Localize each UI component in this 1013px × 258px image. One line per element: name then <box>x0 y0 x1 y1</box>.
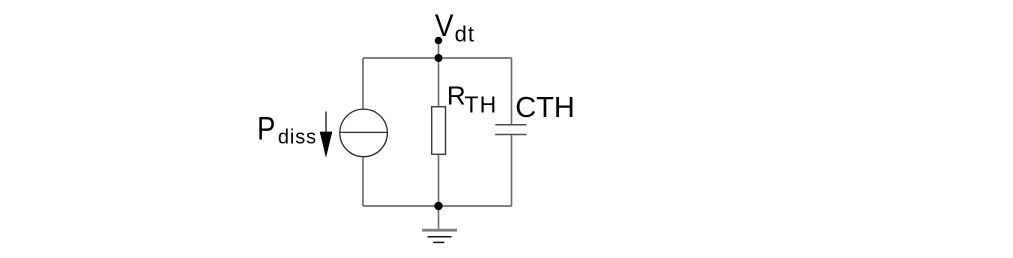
wire ground stub <box>438 206 440 230</box>
capacitor CTH top plate <box>495 124 526 126</box>
wire top rail <box>363 57 512 59</box>
arrow (current direction) shaft <box>325 112 327 136</box>
arrow (current direction) head <box>320 132 333 158</box>
node junction bottom rail <box>434 202 442 210</box>
node Vdt (top terminal dot) <box>435 37 443 45</box>
ground bottom bar <box>433 241 444 243</box>
wire middle branch upper <box>438 58 440 106</box>
svg-text:R: R <box>447 80 466 110</box>
ground top bar <box>422 229 457 232</box>
wire bottom rail <box>363 205 512 207</box>
wire top stub from node Vdt to top rail <box>438 41 440 59</box>
current source I1 (circle) <box>340 109 388 157</box>
svg-text:P: P <box>257 111 275 147</box>
capacitor CTH bottom plate <box>495 134 526 136</box>
wire middle branch lower <box>438 155 440 206</box>
wire left branch lower <box>362 157 364 206</box>
wire right branch lower <box>511 135 513 207</box>
wire left branch upper <box>362 58 364 110</box>
svg-text:TH: TH <box>464 91 497 117</box>
node junction top rail <box>435 54 443 62</box>
resistor RTH (box) <box>432 107 446 155</box>
wire right branch upper <box>511 58 513 125</box>
svg-text:diss: diss <box>278 127 317 149</box>
svg-text:V: V <box>435 7 454 43</box>
svg-text:CTH: CTH <box>515 92 575 124</box>
ground middle bar <box>428 236 452 238</box>
svg-text:dt: dt <box>455 21 475 46</box>
current source I1 horizontal bar <box>340 131 388 133</box>
